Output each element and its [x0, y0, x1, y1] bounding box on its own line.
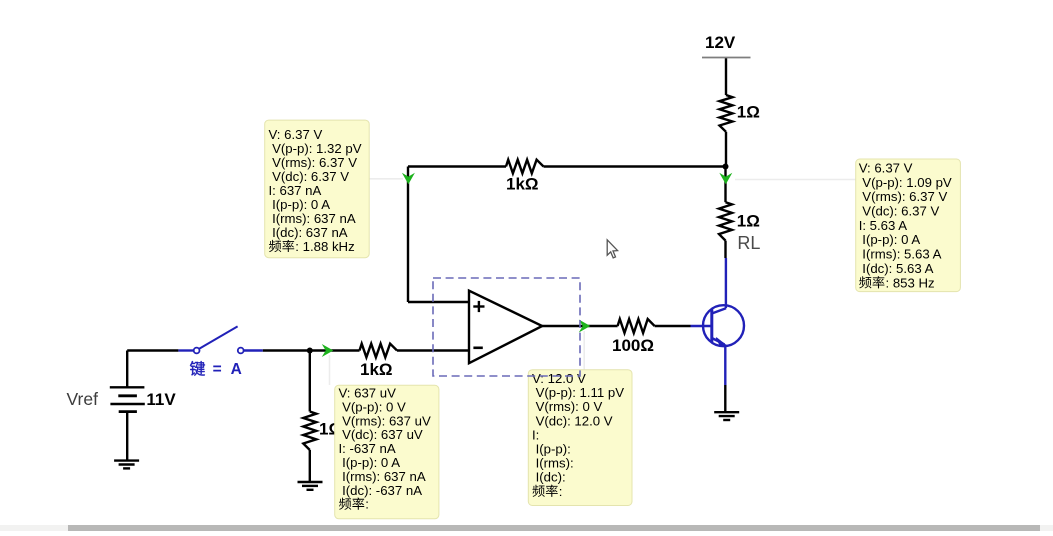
- svg-text:I(dc): -637 nA: I(dc): -637 nA: [342, 483, 422, 498]
- svg-text:I: 637 nA: I: 637 nA: [269, 183, 322, 198]
- svg-text:I(p-p): 0 A: I(p-p): 0 A: [862, 232, 920, 247]
- svg-text:V(dc): 12.0 V: V(dc): 12.0 V: [536, 413, 613, 428]
- svg-text:V: 6.37 V: V: 6.37 V: [269, 127, 323, 142]
- svg-text:Vref: Vref: [67, 389, 99, 409]
- svg-text:: 1.88 kHz: : 1.88 kHz: [295, 239, 354, 254]
- svg-text:V(rms): 0 V: V(rms): 0 V: [536, 399, 603, 414]
- svg-text::: :: [365, 497, 369, 512]
- svg-text:V(rms): 6.37 V: V(rms): 6.37 V: [862, 189, 947, 204]
- svg-text:V(dc): 6.37 V: V(dc): 6.37 V: [862, 204, 939, 219]
- svg-text:V(p-p): 1.32 pV: V(p-p): 1.32 pV: [272, 141, 362, 156]
- svg-text:I: -637 nA: I: -637 nA: [339, 441, 396, 456]
- svg-text:V(p-p): 1.11 pV: V(p-p): 1.11 pV: [536, 385, 625, 400]
- svg-text:V: 637 uV: V: 637 uV: [339, 386, 397, 401]
- svg-text:1Ω: 1Ω: [737, 103, 760, 122]
- svg-text:I(dc): 5.63 A: I(dc): 5.63 A: [862, 261, 933, 276]
- svg-text:I:: I:: [532, 427, 539, 442]
- svg-text:I(rms): 5.63 A: I(rms): 5.63 A: [862, 247, 941, 262]
- svg-text:I(p-p): 0 A: I(p-p): 0 A: [342, 455, 400, 470]
- svg-text:I(rms): 637 nA: I(rms): 637 nA: [342, 469, 426, 484]
- svg-text:100Ω: 100Ω: [612, 336, 654, 355]
- svg-text:I(dc):: I(dc):: [536, 470, 566, 485]
- svg-text:I(rms): 637 nA: I(rms): 637 nA: [272, 211, 356, 226]
- svg-text:V(rms): 637 uV: V(rms): 637 uV: [342, 413, 431, 428]
- svg-text:11V: 11V: [146, 390, 176, 409]
- svg-text:A: A: [231, 361, 242, 378]
- svg-text:I(p-p): 0 A: I(p-p): 0 A: [272, 197, 330, 212]
- svg-text:V(p-p): 0 V: V(p-p): 0 V: [342, 399, 406, 414]
- svg-text:V: 12.0 V: V: 12.0 V: [532, 371, 586, 386]
- svg-text:V(dc): 637 uV: V(dc): 637 uV: [342, 427, 423, 442]
- svg-text:=: =: [213, 361, 222, 378]
- svg-text:I(p-p):: I(p-p):: [536, 442, 571, 457]
- svg-text:I(rms):: I(rms):: [536, 456, 574, 471]
- svg-text:I(dc): 637 nA: I(dc): 637 nA: [272, 225, 348, 240]
- svg-text:: 853 Hz: : 853 Hz: [886, 275, 935, 290]
- svg-text::: :: [559, 484, 563, 499]
- svg-text:1kΩ: 1kΩ: [506, 175, 539, 194]
- svg-text:V(rms): 6.37 V: V(rms): 6.37 V: [272, 155, 357, 170]
- svg-text:V: 6.37 V: V: 6.37 V: [859, 161, 913, 176]
- svg-text:1kΩ: 1kΩ: [360, 360, 393, 379]
- svg-text:RL: RL: [737, 233, 760, 253]
- svg-text:V(dc): 6.37 V: V(dc): 6.37 V: [272, 169, 349, 184]
- svg-text:12V: 12V: [705, 33, 736, 52]
- svg-text:I: 5.63 A: I: 5.63 A: [859, 218, 908, 233]
- svg-text:V(p-p): 1.09 pV: V(p-p): 1.09 pV: [862, 175, 952, 190]
- svg-text:1Ω: 1Ω: [737, 211, 760, 230]
